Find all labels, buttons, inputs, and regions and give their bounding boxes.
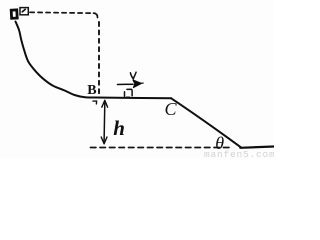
dashed block outline on plateau	[125, 89, 133, 97]
label B	[87, 84, 96, 98]
bottom dashed ground level line	[91, 147, 234, 149]
watermark manfen5.com	[204, 150, 276, 160]
label C	[165, 100, 177, 118]
vertical dashed guide line	[98, 22, 100, 96]
velocity arrow	[118, 80, 144, 88]
hook joining dashed guides	[94, 13, 98, 17]
h double-headed arrow	[101, 100, 107, 144]
top horizontal dashed guide line	[30, 11, 95, 14]
label v (drawn strokes)	[130, 72, 136, 79]
label h	[113, 118, 125, 139]
small square marker with tick (on dashed guide)	[20, 8, 28, 15]
block at top of ramp (point A)	[11, 10, 17, 18]
ground line right of incline foot	[240, 147, 274, 148]
small tick below plateau near B	[93, 101, 97, 104]
incline from C down to ground	[171, 98, 241, 147]
curved ramp from block down to B, plateau B to C	[16, 22, 172, 99]
label theta	[215, 134, 224, 152]
